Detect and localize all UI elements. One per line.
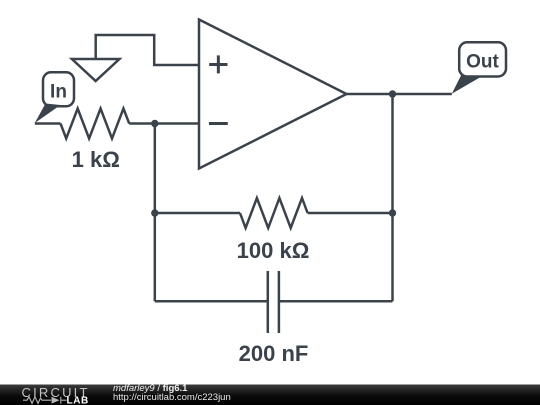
wire right vertical	[391, 94, 394, 301]
junction node output	[389, 90, 396, 97]
svg-text:In: In	[50, 82, 67, 103]
logo circuit squiggle	[23, 397, 61, 404]
junction node R1/feedback	[151, 120, 158, 127]
wire bottom left to capacitor	[155, 300, 268, 303]
svg-text:100 kΩ: 100 kΩ	[237, 238, 310, 263]
svg-text:1 kΩ: 1 kΩ	[72, 147, 120, 172]
junction node feedback left	[151, 209, 158, 216]
ground	[72, 59, 120, 81]
svg-text:200 nF: 200 nF	[239, 341, 309, 366]
wire capacitor to right vertical	[279, 300, 393, 303]
op-amp U1	[199, 20, 347, 169]
wire feedback left segment	[155, 212, 240, 215]
svg-text:LAB: LAB	[67, 396, 89, 405]
resistor R1	[61, 109, 130, 139]
svg-text:Out: Out	[466, 52, 499, 73]
In flag	[35, 72, 74, 123]
wire ground to non-inverting input	[96, 35, 199, 65]
op-amp minus input mark	[209, 122, 228, 125]
wire In flag to R1	[35, 122, 61, 125]
wire R1 to inverting input	[129, 122, 199, 125]
wire op-amp output	[347, 93, 452, 96]
wire left feedback vertical	[154, 124, 157, 302]
Out flag	[452, 42, 506, 93]
wire feedback right segment	[308, 212, 393, 215]
footer bar	[0, 385, 540, 405]
resistor R2	[240, 198, 308, 228]
svg-text:http://circuitlab.com/c223jun: http://circuitlab.com/c223jun	[113, 392, 231, 403]
junction node feedback right	[389, 209, 396, 216]
op-amp plus input mark	[209, 55, 227, 73]
capacitor C1 plates	[268, 271, 279, 333]
